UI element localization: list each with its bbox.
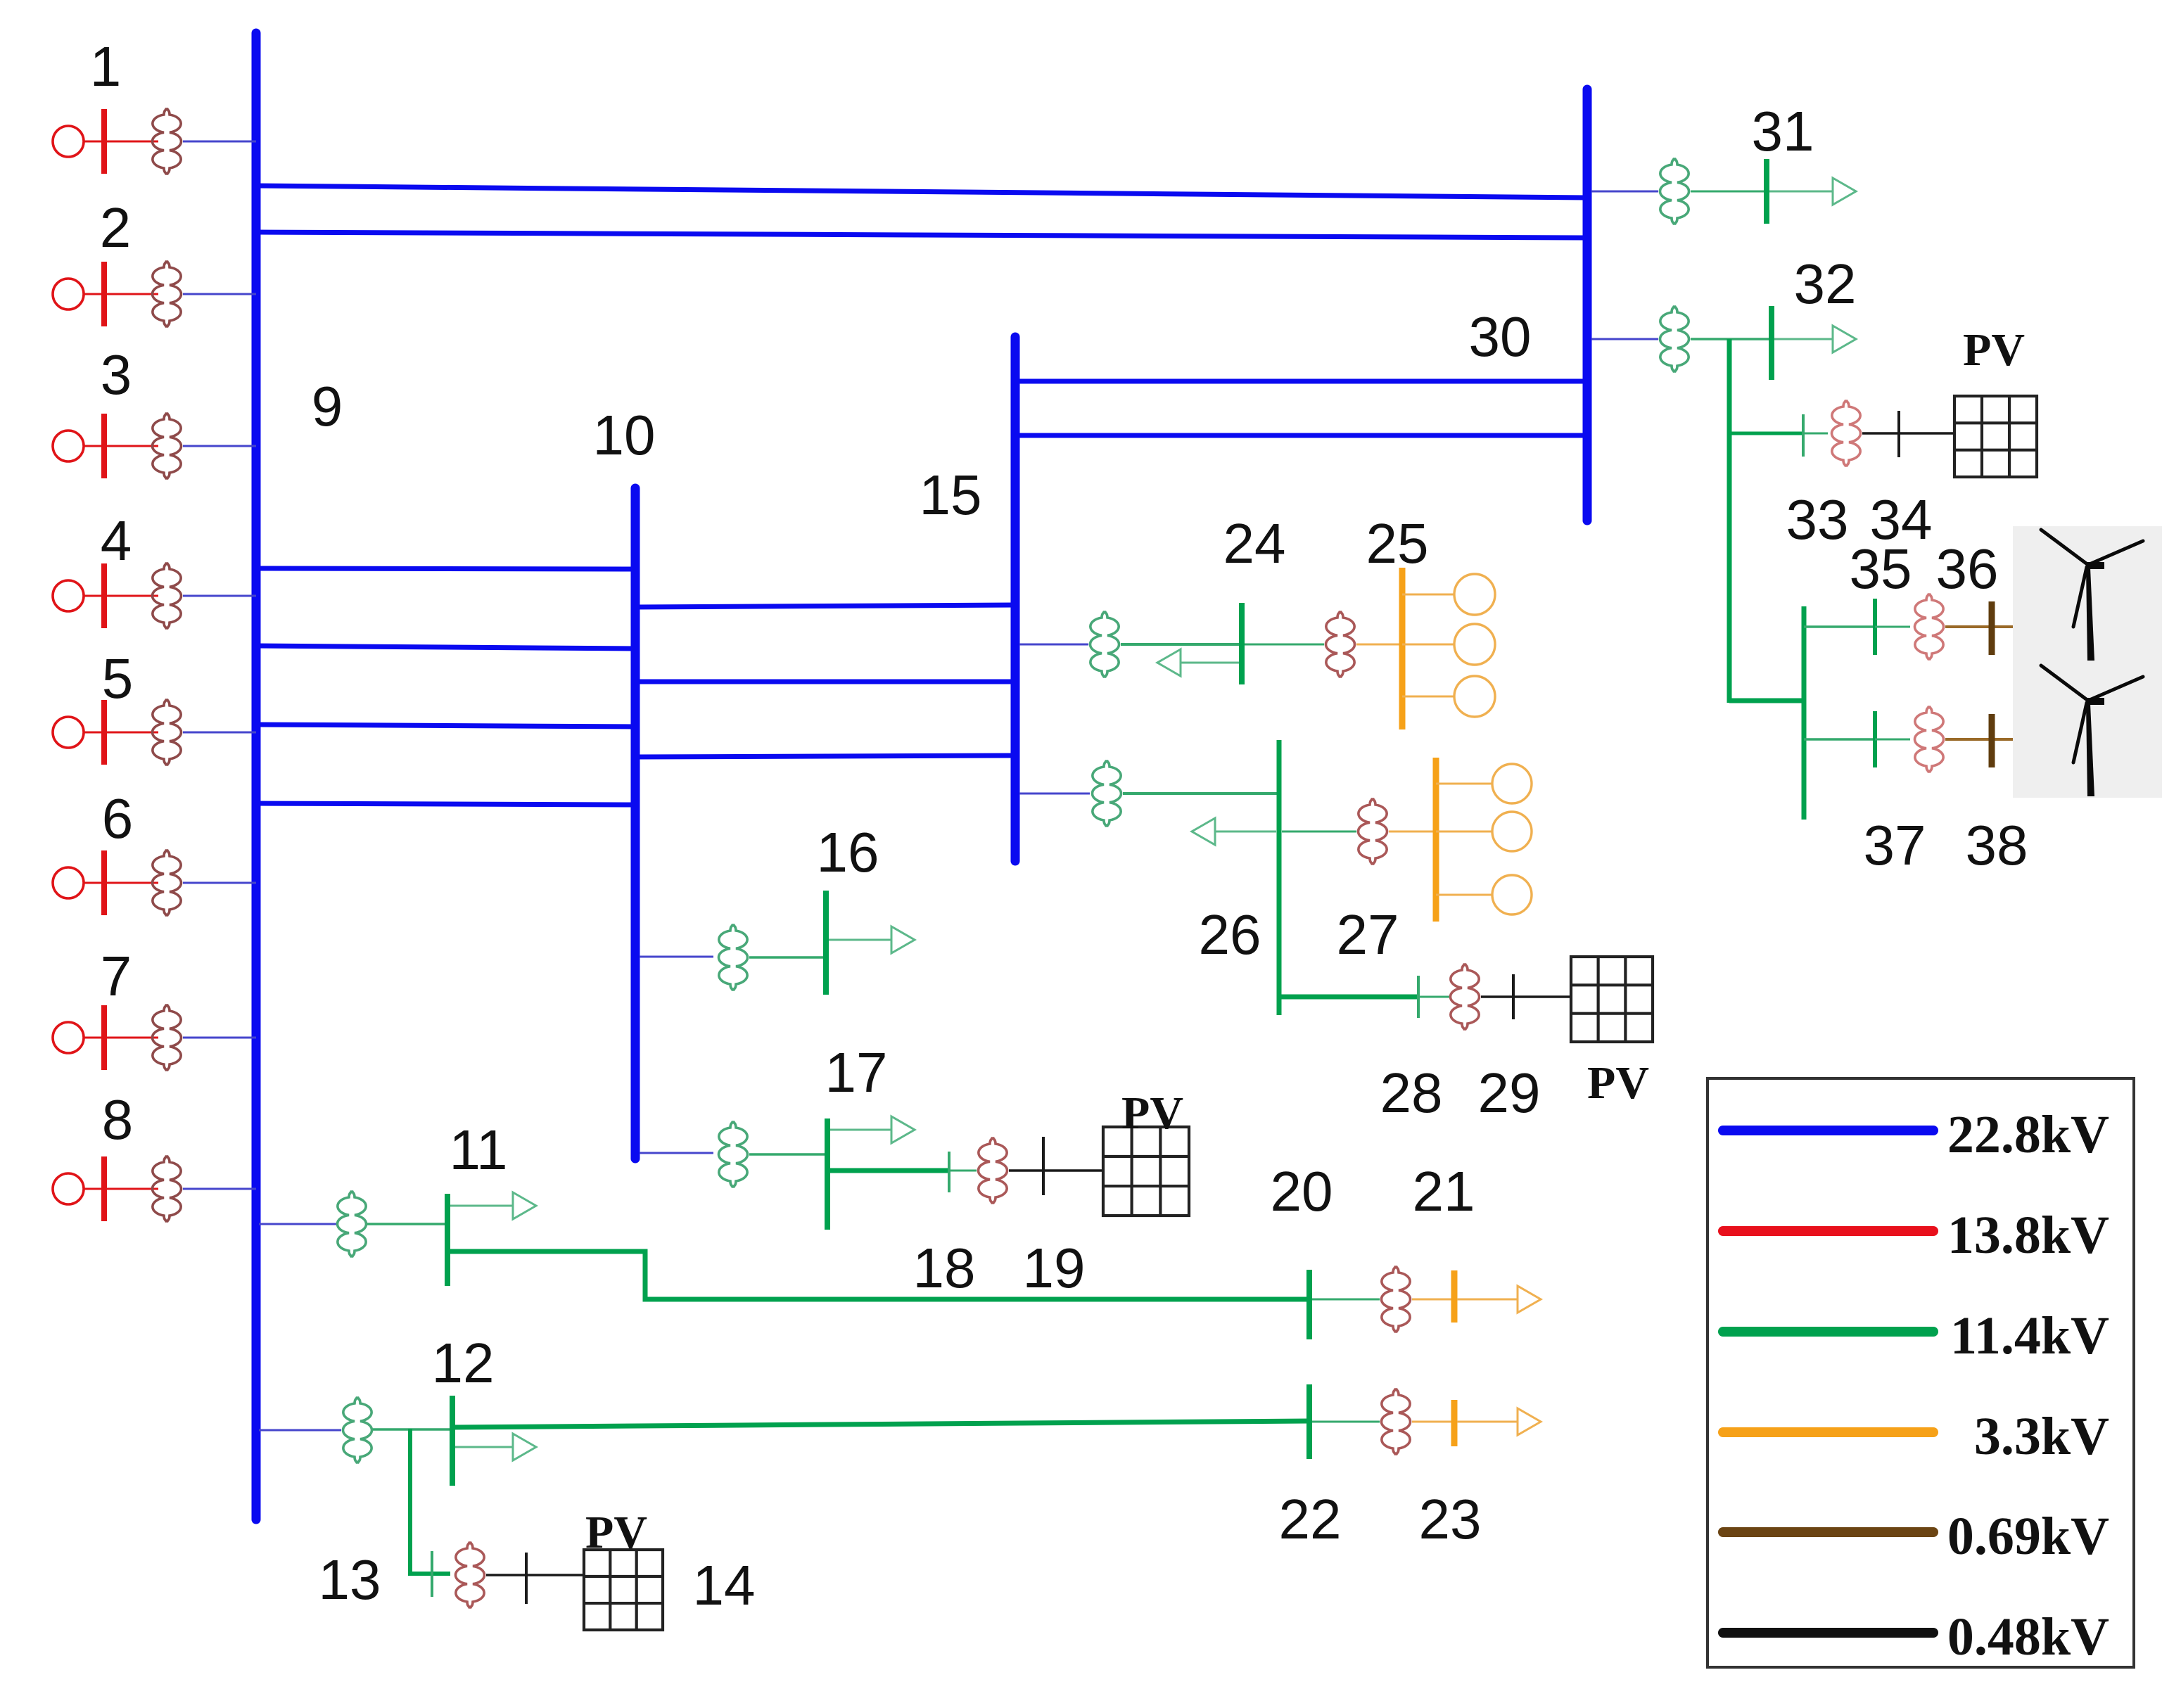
svg-text:20: 20: [1271, 1160, 1333, 1223]
svg-text:36: 36: [1936, 537, 1999, 600]
svg-text:24: 24: [1223, 512, 1286, 575]
svg-text:15: 15: [920, 464, 982, 526]
svg-text:27: 27: [1337, 903, 1399, 966]
svg-text:11: 11: [449, 1119, 507, 1181]
svg-text:2: 2: [100, 196, 132, 259]
svg-text:25: 25: [1366, 512, 1429, 575]
svg-text:3.3kV: 3.3kV: [1974, 1407, 2109, 1466]
svg-text:PV: PV: [585, 1507, 647, 1558]
svg-text:3: 3: [101, 343, 132, 406]
svg-text:26: 26: [1199, 903, 1261, 966]
svg-text:9: 9: [312, 375, 343, 438]
svg-text:21: 21: [1413, 1160, 1475, 1223]
svg-text:22.8kV: 22.8kV: [1947, 1105, 2109, 1164]
svg-text:11.4kV: 11.4kV: [1950, 1306, 2109, 1365]
svg-text:23: 23: [1419, 1488, 1482, 1550]
svg-text:17: 17: [825, 1041, 888, 1104]
svg-text:10: 10: [593, 404, 656, 466]
svg-text:38: 38: [1966, 814, 2028, 877]
svg-text:31: 31: [1752, 100, 1814, 162]
svg-text:30: 30: [1469, 305, 1532, 368]
svg-text:PV: PV: [1121, 1088, 1183, 1139]
svg-text:0.69kV: 0.69kV: [1947, 1507, 2109, 1566]
svg-text:29: 29: [1478, 1062, 1541, 1124]
svg-text:0.48kV: 0.48kV: [1947, 1607, 2109, 1666]
svg-text:8: 8: [102, 1088, 134, 1151]
svg-text:35: 35: [1850, 537, 1912, 600]
svg-text:13.8kV: 13.8kV: [1947, 1206, 2109, 1265]
svg-text:5: 5: [102, 647, 134, 710]
svg-text:37: 37: [1864, 814, 1926, 877]
svg-text:PV: PV: [1963, 324, 2025, 376]
svg-text:PV: PV: [1587, 1057, 1649, 1109]
svg-text:12: 12: [432, 1332, 495, 1394]
svg-text:33: 33: [1786, 488, 1849, 551]
svg-text:4: 4: [101, 509, 132, 572]
svg-text:1: 1: [90, 35, 122, 98]
svg-text:14: 14: [693, 1554, 756, 1617]
svg-text:13: 13: [319, 1548, 381, 1611]
svg-text:18: 18: [913, 1237, 976, 1299]
svg-text:16: 16: [817, 821, 879, 884]
svg-text:19: 19: [1023, 1237, 1086, 1299]
svg-text:22: 22: [1279, 1488, 1342, 1550]
svg-text:7: 7: [101, 945, 132, 1007]
svg-text:28: 28: [1380, 1062, 1443, 1124]
svg-text:6: 6: [102, 787, 134, 850]
svg-text:32: 32: [1794, 253, 1857, 315]
